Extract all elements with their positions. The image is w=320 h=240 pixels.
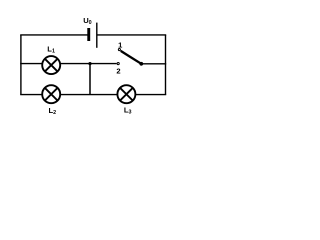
wire: junction vertical between middle and bottom (89, 64, 91, 95)
switch pole dot (139, 62, 143, 66)
wire: bottom (20, 94, 166, 96)
switch contact 2 (117, 63, 119, 65)
lamp L3 (117, 85, 135, 103)
junction dot node A (88, 62, 91, 65)
battery U0: thick short negative plate (87, 28, 90, 41)
wire: top, battery positive to right (97, 34, 166, 36)
svg-text:2: 2 (116, 67, 120, 76)
wire: right vertical (165, 35, 167, 95)
battery U0: thin long positive plate (96, 23, 98, 48)
wire: switch pole to right vertical (141, 63, 166, 65)
switch lever (121, 51, 142, 64)
switch contact 1 (118, 49, 120, 51)
lamp L1 (42, 56, 60, 74)
lamp L2 (42, 85, 60, 103)
wire: left vertical (20, 35, 22, 95)
wire: top, battery negative to left (20, 34, 88, 36)
wire: middle from left to switch contact 2 (20, 63, 117, 65)
